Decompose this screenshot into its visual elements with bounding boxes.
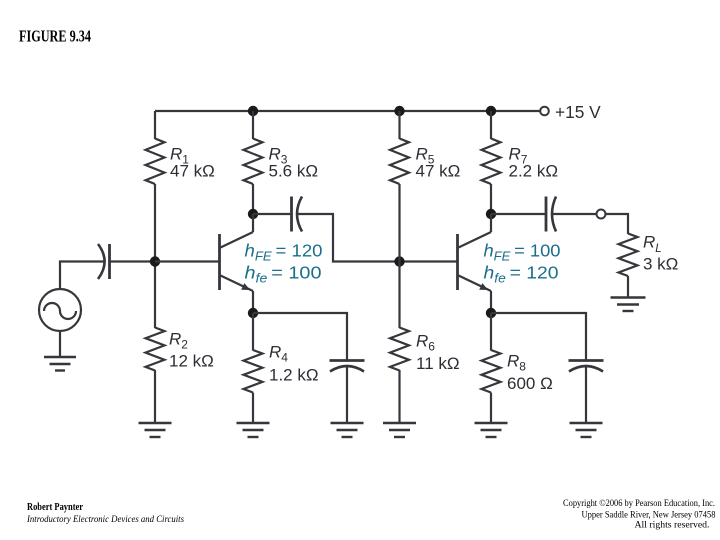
svg-text:12 kΩ: 12 kΩ [169, 352, 214, 371]
node Q1 collector [248, 209, 258, 219]
node Q1 base [150, 256, 160, 266]
ground R8 [475, 423, 508, 437]
svg-text:3 kΩ: 3 kΩ [643, 255, 678, 274]
resistor R2 [146, 262, 165, 424]
capacitor C5 bypass [569, 361, 604, 372]
ground source [44, 331, 76, 371]
wire Q1 emitter to C3 [253, 313, 347, 360]
svg-text:47 kΩ: 47 kΩ [170, 162, 215, 181]
wire C1 to base node [110, 260, 156, 262]
svg-text:5.6 kΩ: 5.6 kΩ [269, 162, 319, 181]
ground R4 [237, 423, 270, 437]
+15 V supply terminal [540, 107, 549, 116]
svg-text:47 kΩ: 47 kΩ [416, 162, 461, 181]
svg-text:RL: RL [643, 233, 662, 256]
transistor Q2 [458, 214, 492, 313]
capacitor C4 output coupling [546, 197, 556, 232]
wire C3 to ground [346, 367, 348, 424]
ground RL [611, 298, 646, 312]
svg-text:FIGURE 9.34: FIGURE 9.34 [19, 27, 91, 46]
transistor Q1 [220, 214, 254, 313]
resistor R1 [146, 111, 165, 262]
svg-text:hFE = 120: hFE = 120 [245, 241, 323, 264]
wire C4 to output terminal [552, 213, 597, 215]
resistor RL [619, 234, 638, 298]
resistor R5 [390, 111, 409, 262]
svg-text:600 Ω: 600 Ω [507, 374, 553, 393]
svg-text:Copyright ©2006 by Pearson Edu: Copyright ©2006 by Pearson Education, In… [563, 498, 715, 509]
svg-text:R8: R8 [507, 352, 526, 374]
ground R6 [383, 423, 416, 437]
svg-text:+15 V: +15 V [555, 102, 601, 122]
svg-text:hfe = 120: hfe = 120 [484, 263, 559, 286]
node Q1 emitter [248, 308, 258, 318]
wire C2 to Q2 base [297, 214, 458, 262]
wire Q2 collector to C4 [491, 213, 546, 215]
svg-text:hfe = 100: hfe = 100 [245, 263, 322, 286]
resistor R7 [482, 111, 501, 214]
ground R2 [139, 423, 172, 437]
resistor R6 [390, 262, 409, 424]
node Q2 emitter [486, 308, 496, 318]
output terminal [597, 210, 606, 219]
capacitor C1 input coupling [98, 244, 110, 279]
resistor R8 [482, 313, 501, 423]
svg-text:hFE = 100: hFE = 100 [484, 241, 561, 264]
wire C5 to ground [585, 367, 587, 424]
ground C5 [570, 423, 603, 437]
svg-text:1.2 kΩ: 1.2 kΩ [269, 366, 319, 385]
svg-text:R4: R4 [269, 343, 288, 365]
node rail-R7 [486, 106, 496, 116]
svg-text:2.2 kΩ: 2.2 kΩ [509, 162, 559, 181]
svg-text:All rights reserved.: All rights reserved. [635, 521, 710, 531]
wire source to C1 [60, 262, 104, 290]
wire base node to Q1 [155, 260, 220, 262]
wire top supply rail [155, 110, 540, 112]
wire output terminal to RL [606, 214, 629, 234]
capacitor C3 bypass [330, 361, 365, 372]
capacitor C2 interstage coupling [292, 197, 303, 232]
svg-text:Upper Saddle River, New Jersey: Upper Saddle River, New Jersey 07458 [582, 510, 716, 520]
svg-text:Robert Paynter: Robert Paynter [27, 502, 83, 513]
resistor R4 [244, 313, 263, 423]
resistor R3 [244, 111, 263, 214]
node rail-R3 [248, 106, 258, 116]
node Q2 collector [486, 209, 496, 219]
ground C3 [331, 423, 364, 437]
voltage source VS [39, 289, 81, 331]
wire Q2 emitter to C5 [491, 313, 586, 360]
node Q2 base [394, 256, 404, 266]
svg-text:Introductory Electronic Device: Introductory Electronic Devices and Circ… [26, 514, 184, 524]
svg-text:R2: R2 [169, 330, 188, 352]
wire Q1 collector to C2 [253, 213, 292, 215]
node rail-R5 [394, 106, 404, 116]
svg-text:R6: R6 [416, 332, 435, 354]
svg-text:11 kΩ: 11 kΩ [416, 354, 460, 373]
